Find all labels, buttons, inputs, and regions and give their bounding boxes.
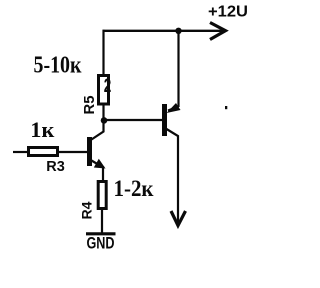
junction on +12V rail [175, 28, 181, 34]
svg-text:1-2к: 1-2к [114, 176, 155, 201]
svg-text:2: 2 [104, 76, 112, 97]
svg-text:R5: R5 [82, 96, 98, 115]
svg-text:+12U: +12U [208, 4, 248, 21]
label 5-10к [34, 53, 82, 79]
label 2 (mark at R5 top) [104, 76, 112, 97]
stray mark [225, 106, 227, 109]
svg-text:5-10к: 5-10к [34, 53, 82, 79]
wire: R3 to Q1 base [58, 151, 88, 153]
label 1к [30, 117, 54, 142]
transistor Q2 (PNP) base bar [162, 104, 167, 136]
label R4 [79, 201, 95, 219]
wire: R5 to junction node [102, 104, 104, 122]
svg-text:R3: R3 [46, 158, 65, 175]
wire: input lead [13, 151, 28, 153]
label R3 [46, 158, 65, 175]
transistor Q2 emitter wire from rail with arrow into bar [167, 30, 181, 113]
resistor R5 [99, 76, 109, 105]
svg-text:1к: 1к [30, 117, 54, 142]
svg-text:R4: R4 [79, 201, 95, 219]
junction node (R5 / Q1 collector / Q2 base) [101, 117, 108, 124]
resistor R4 [98, 182, 106, 209]
wire: +12V supply rail [103, 30, 223, 32]
+12V supply arrow [210, 23, 226, 40]
resistor R3 [29, 148, 58, 156]
wire: rail down to R5 [102, 30, 104, 76]
transistor Q1 emitter wire with arrow [92, 159, 106, 182]
wire: R4 to ground [101, 209, 103, 235]
output arrow [171, 211, 186, 226]
label +12V [208, 4, 248, 21]
label GND [87, 235, 115, 253]
label 1-2к [114, 176, 155, 201]
transistor Q2 collector wire (output) [167, 129, 179, 223]
svg-text:GND: GND [87, 235, 115, 253]
transistor Q1 (NPN) base bar [87, 137, 92, 166]
label R5 [82, 96, 98, 115]
wire: junction to Q2 base [104, 119, 163, 121]
transistor Q1 collector wire to junction [92, 118, 104, 140]
ground [86, 232, 116, 235]
